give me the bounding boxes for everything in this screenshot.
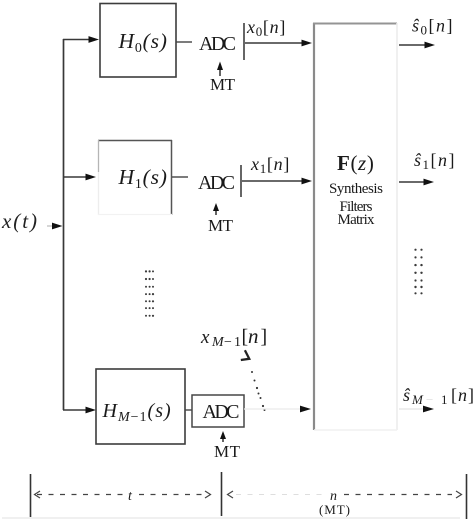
timeline n-span right hook xyxy=(456,491,462,498)
MT clock row1 arrow xyxy=(215,208,217,215)
ellipsis dots between s1 and sM-1 outputs xyxy=(414,249,422,295)
svg-text:Matrix: Matrix xyxy=(338,212,376,228)
svg-text:x1[n]: x1[n] xyxy=(250,154,290,176)
wire: branch to HM-1 xyxy=(63,409,87,411)
svg-text:MT: MT xyxy=(208,216,234,235)
synthesis matrix F(z) right edge (faint) xyxy=(396,23,398,430)
svg-text:x(t): x(t) xyxy=(1,209,37,233)
filter H0 box xyxy=(100,4,176,78)
MT clock rowM-1 arrow xyxy=(222,436,224,442)
wire ADC to F(z) row M-1 (faded) xyxy=(244,408,300,410)
timeline n-span left hook xyxy=(228,491,234,498)
svg-text:Synthesis: Synthesis xyxy=(329,181,383,197)
ellipsis dots between H1 and HM-1 xyxy=(145,270,154,317)
synthesis matrix F(z) left edge xyxy=(313,23,315,430)
wire: output sM-1 arrow (faded line) xyxy=(399,408,423,410)
svg-text:ADC: ADC xyxy=(199,33,236,55)
svg-text:ŝ0[n]: ŝ0[n] xyxy=(412,16,454,38)
svg-text:ADC: ADC xyxy=(203,401,240,423)
svg-text:ADC: ADC xyxy=(198,172,235,194)
timeline right bar xyxy=(466,474,468,519)
timeline left bar xyxy=(30,474,32,519)
svg-text:x0[n]: x0[n] xyxy=(246,17,286,39)
svg-text:H1(s): H1(s) xyxy=(118,165,168,192)
wire: branch to H0 xyxy=(63,39,90,41)
ADC box row M-1 xyxy=(192,395,244,427)
timeline t-span left hook xyxy=(35,491,41,498)
filter H1 box left edge (fading) xyxy=(98,140,100,172)
wire: x(t) input arrow xyxy=(47,225,54,227)
svg-text:MT: MT xyxy=(210,75,236,94)
wire HM-1 to ADC box xyxy=(185,409,192,411)
timeline t-span right hook xyxy=(205,491,211,498)
timeline n-span dashes faded xyxy=(236,494,322,496)
svg-text:MT: MT xyxy=(214,442,241,461)
filter HM-1 box xyxy=(96,369,185,444)
dotted leader from xM-1 label to wire xyxy=(241,350,252,362)
scan artifact bottom smudge xyxy=(2,517,460,519)
filter H1 box top edge xyxy=(98,140,172,142)
wire x0 to F(z) xyxy=(245,42,303,44)
svg-text:ŝ1[n]: ŝ1[n] xyxy=(414,150,456,172)
svg-text:F(z): F(z) xyxy=(337,151,374,175)
wire H1 to ADC xyxy=(172,176,188,178)
MT clock row0 arrow xyxy=(219,67,221,76)
timeline t-span dashes right xyxy=(139,494,206,496)
wire: output s1 arrow xyxy=(399,181,425,183)
wire: output s0 arrow xyxy=(399,44,426,46)
timeline n-span dashes right xyxy=(344,494,452,496)
filter H1 box right edge xyxy=(171,140,173,215)
sampler tick row0 xyxy=(243,23,245,60)
filter H1 box bottom edge (faint) xyxy=(98,214,172,216)
synthesis matrix F(z) top edge xyxy=(313,23,397,25)
wire: branch to H1 xyxy=(63,176,87,178)
wire x1 to F(z) xyxy=(242,180,303,182)
timeline t-span dashes left xyxy=(37,494,124,496)
svg-text:(MT): (MT) xyxy=(319,502,350,517)
wire: input bus vertical xyxy=(63,39,65,410)
svg-text:H0(s): H0(s) xyxy=(118,29,168,56)
synthesis matrix F(z) bottom edge (faint) xyxy=(314,429,397,431)
timeline middle bar xyxy=(221,472,223,516)
sampler tick row1 xyxy=(240,165,242,197)
wire H0 to ADC xyxy=(176,41,192,43)
